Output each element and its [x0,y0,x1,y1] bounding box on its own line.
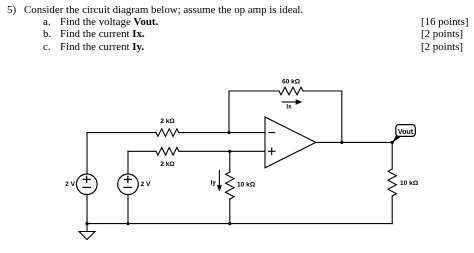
label 10 kOhm right [400,180,419,187]
resistor R1 2k top [156,129,179,137]
label Ix [286,104,292,111]
label 2V left [65,181,75,188]
wire inverting input line [87,132,265,134]
svg-text:2 kΩ: 2 kΩ [160,161,175,168]
resistor R2 2k bottom [156,148,179,156]
resistor R_load 10k right [388,142,396,223]
svg-text:Ix: Ix [286,104,292,111]
problem statement [24,4,303,16]
svg-text:10 kΩ: 10 kΩ [400,180,419,187]
svg-text:2 V: 2 V [141,181,151,188]
voltage source V2 2V right [118,151,139,223]
item b [43,28,51,40]
node V2 bottom junction [126,222,129,225]
label 10 kOhm middle [237,182,256,189]
svg-text:2 V: 2 V [65,181,75,188]
ground [79,224,95,240]
wire output [316,141,392,143]
wire noninverting input line [128,150,265,152]
points c [421,41,463,53]
svg-text:60 kΩ: 60 kΩ [282,79,301,86]
node Iy bottom junction [228,222,231,225]
node feedback-output junction [340,141,343,144]
label 2 kOhm top [160,118,175,125]
label 2 kOhm bottom [160,161,175,168]
label 2V right [141,181,151,188]
label Iy [211,180,217,187]
node inverting junction [227,131,230,134]
node noninverting junction [228,150,231,153]
item c [43,41,51,53]
label Vout callout [392,125,416,144]
resistor R_60k [279,87,303,95]
resistor R_iy 10k middle [226,151,234,223]
wire bottom rail [87,223,392,225]
item a [43,16,51,28]
op-amp U1 [265,117,316,168]
points a [421,16,469,28]
arrow Ix [282,99,302,104]
voltage source V1 2V left [77,133,98,224]
label 60 kOhm [282,79,301,86]
svg-text:Iy: Iy [211,180,217,187]
arrow Iy [217,171,222,192]
node Vout junction [391,141,394,144]
wire feedback top [229,91,342,142]
points b [421,28,463,40]
svg-text:10 kΩ: 10 kΩ [237,182,256,189]
svg-text:Vout: Vout [398,128,414,136]
problem number 5) [7,4,16,16]
node ground junction [85,222,88,225]
svg-text:2 kΩ: 2 kΩ [160,118,175,125]
